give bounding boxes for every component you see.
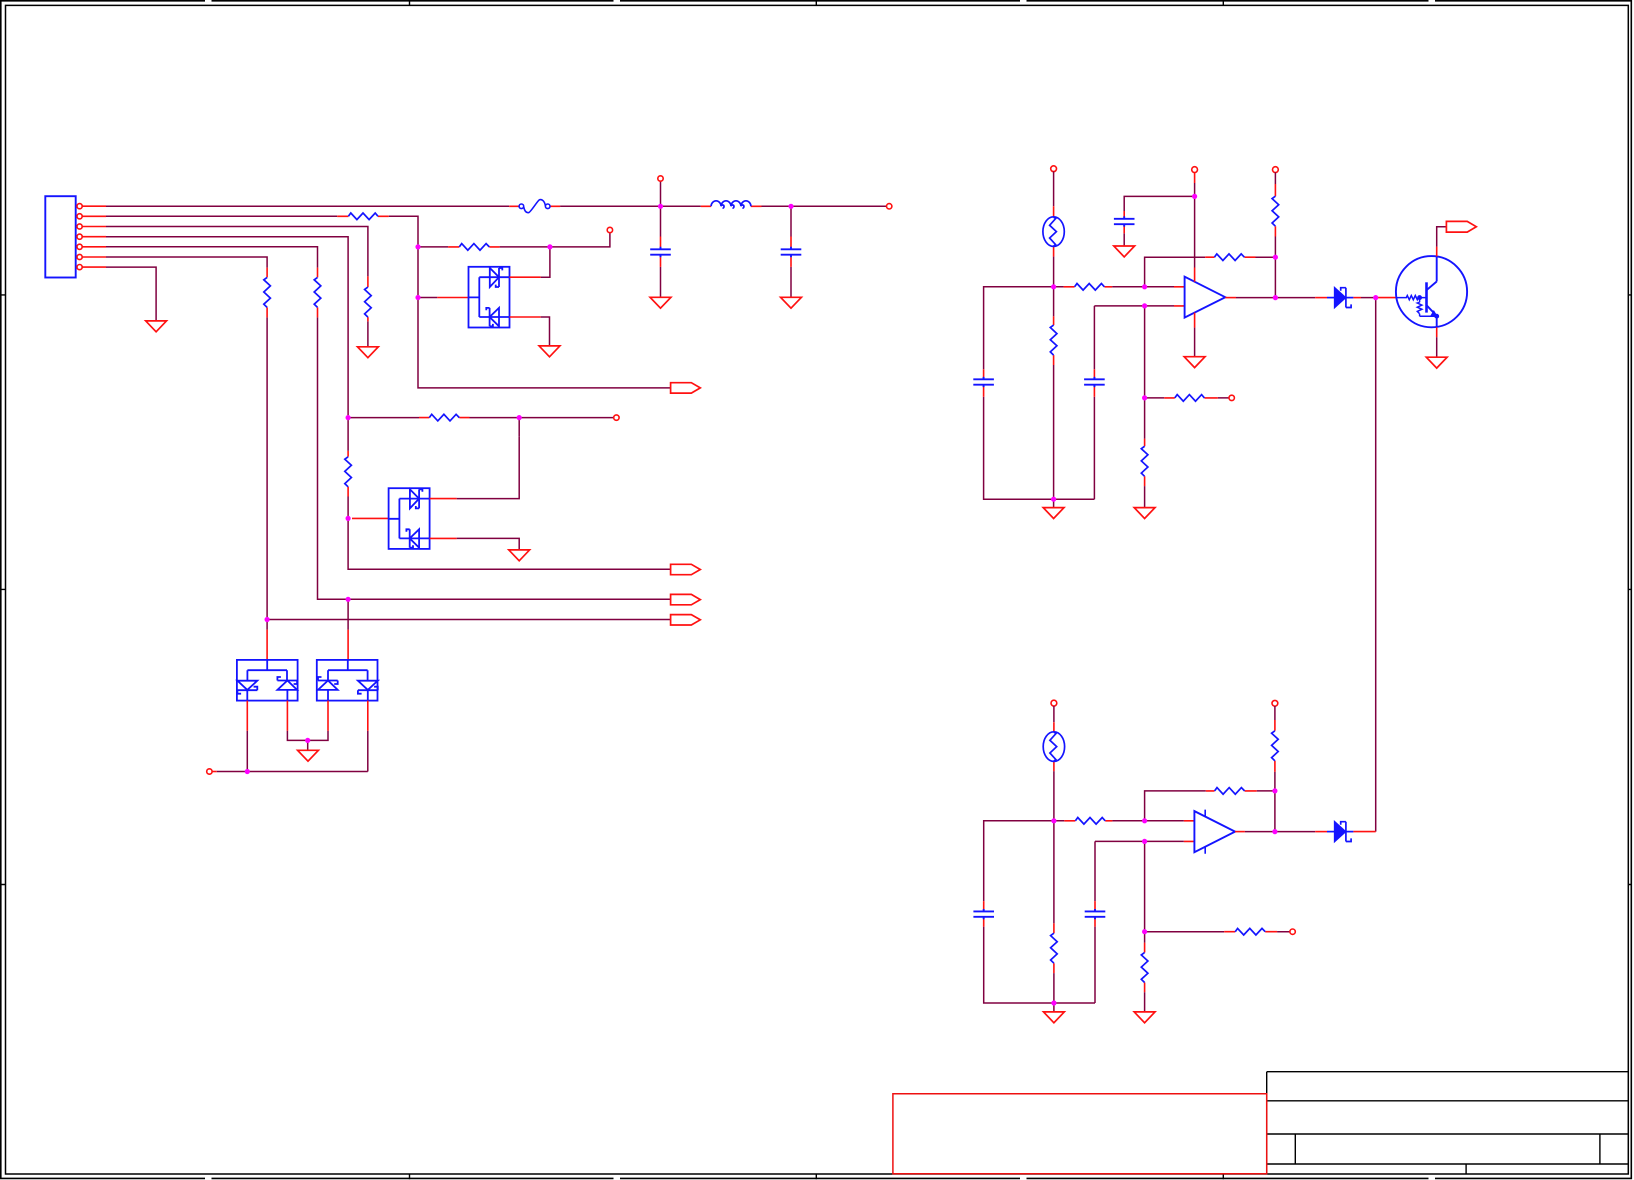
dual diode D1 left pin lead (437, 297, 468, 299)
thermistor RT1 leads (1053, 206, 1055, 256)
wire net pin5 drop to D4 (347, 599, 349, 629)
TVS D3 left diode wire to rail (246, 731, 248, 772)
resistor R14 leads (1144, 439, 1146, 487)
thermistor RT1 (1043, 217, 1064, 247)
diode D6 cathode lead (1353, 831, 1375, 833)
ground op-amp U1 (1184, 357, 1205, 368)
resistor R8 (264, 277, 271, 307)
dual diode D1 top pin wire (541, 247, 550, 277)
revision red box (893, 1094, 1267, 1174)
port arrow A4 (671, 615, 701, 625)
bypass cap wire (1124, 196, 1194, 246)
resistor R18 wires (1274, 706, 1276, 832)
feedback wire U1 (1145, 257, 1276, 287)
capacitor C5 bypass (1114, 216, 1135, 226)
resistor R7 leads (317, 268, 319, 318)
emitter wire (1436, 337, 1438, 357)
capacitor C5 bypass leads (1123, 211, 1125, 233)
TVS D4 right diode wire to rail (367, 731, 369, 772)
dual diode D1 package (469, 267, 510, 328)
thermistor RT2 (1043, 732, 1064, 762)
pin terminal circle R19 (1290, 929, 1295, 934)
fuse F1 leads (509, 205, 560, 207)
wire R9 to plus input (1054, 286, 1145, 288)
resistor R18 pullup leads (1274, 720, 1276, 772)
TVS D3 package (237, 660, 298, 701)
ground Q1 emitter (1426, 357, 1447, 368)
TVS D4 left diode wire to gnd node (308, 731, 328, 741)
dual diode D2 package (389, 488, 430, 549)
wire R20 (1144, 932, 1146, 1012)
ground TVS common (307, 740, 309, 750)
resistor R17 feedback leads (1206, 790, 1257, 792)
inductor L1 leads (701, 205, 762, 207)
resistor R15 input leads (1064, 820, 1112, 822)
op-amp U1 gnd wire (1194, 328, 1196, 357)
ground under R20 (1134, 1012, 1155, 1023)
inductor L1 (711, 201, 751, 208)
feedback wire U2 (1145, 791, 1275, 821)
resistor R6 vertical leads (347, 451, 349, 497)
supply terminal circle R18 (1272, 700, 1278, 706)
resistor R16 divider leads (1053, 923, 1055, 973)
diode D5 schottky (1327, 288, 1353, 308)
collector wire to port (1437, 227, 1447, 247)
TVS D4 package (317, 660, 378, 701)
resistor R10 divider (1050, 325, 1057, 355)
resistor R4 (365, 287, 372, 317)
TVS D4 bottom pin leads (328, 701, 368, 731)
connector J1 pin leads (82, 206, 106, 267)
port arrow A5 (1446, 221, 1476, 232)
resistor R2 series leads (337, 215, 389, 217)
capacitor C4 leads (1093, 369, 1095, 397)
port arrow A2 (671, 564, 701, 574)
ground under D2 (509, 550, 530, 561)
ground under R14 (1134, 508, 1155, 519)
resistor R15 input (1075, 818, 1105, 825)
ground pin7 (146, 321, 167, 332)
frame zone gap marks bottom (205, 1177, 1435, 1179)
resistor R5 leads (419, 417, 470, 419)
resistor R5 to terminal wire (348, 418, 613, 437)
dual diode D2 bottom pin wire (457, 538, 520, 550)
supply lead U1 (1194, 172, 1196, 183)
resistor R5 (429, 414, 459, 421)
resistor R13 leads (1164, 397, 1218, 399)
frame zone gap marks top (205, 0, 1435, 2)
wire R15 to plus input (1054, 820, 1145, 822)
wire RT1 bottom to node (1053, 257, 1055, 287)
resistor R18 pullup (1272, 731, 1279, 761)
pin terminal circle rail (207, 769, 212, 774)
ground bypass cap (1114, 246, 1135, 257)
op-amp U1 input wires (1145, 287, 1174, 398)
op-amp U1 output lead (1225, 297, 1236, 299)
ground under C2 (781, 297, 802, 308)
wire RT1 node down through R10 (1053, 287, 1055, 508)
supply terminal circle U1 (1192, 167, 1198, 173)
fuse F1 (519, 200, 550, 213)
op-amp U1 (1185, 277, 1226, 318)
transistor Q1 base lead (1376, 297, 1396, 299)
wire minus node to R19 row (1145, 931, 1290, 933)
resistor R9 input leads (1064, 286, 1113, 288)
op-amp U2 input leads (1184, 821, 1195, 842)
capacitor C2 wires (790, 206, 792, 297)
capacitor C2 (781, 247, 802, 257)
capacitor C4 (1084, 377, 1105, 387)
wire RT1 top (1053, 171, 1055, 206)
capacitor C4 branch wires (1094, 306, 1144, 499)
diode D6 schottky (1327, 822, 1353, 842)
frame zone ticks left (0, 295, 6, 885)
wire net pin6 (106, 257, 671, 630)
resistor R11 feedback (1214, 254, 1244, 261)
supply terminal circle R12 (1273, 167, 1279, 173)
capacitor C1 wires (660, 206, 662, 297)
wire node to left cap branch (984, 287, 1095, 499)
capacitor C1 (650, 247, 671, 257)
capacitor C6 leads (983, 901, 985, 927)
resistor R19 (1235, 928, 1265, 935)
wire RT2 top (1053, 706, 1055, 722)
resistor R7 (314, 277, 321, 307)
frame zone ticks right (1628, 295, 1631, 885)
dual diode D2 left pin lead (352, 517, 389, 519)
resistor R20 (1141, 953, 1148, 983)
pin terminal circle R13 (1229, 395, 1234, 400)
wire RT2 node down through R16 (1053, 821, 1055, 1012)
op-amp U2 output lead (1235, 831, 1245, 833)
capacitor C2 leads (790, 237, 792, 267)
transistor Q1 collector lead (1436, 247, 1438, 257)
dual diode D2 right pin leads (430, 499, 457, 539)
frame zone ticks top (410, 0, 1224, 5)
connector J1 pin circles (77, 204, 82, 270)
TVS D3 right diode wire to gnd node (287, 731, 307, 741)
bottom rail terminal lead (212, 771, 217, 773)
port arrow A3 (671, 594, 701, 604)
resistor R2 series (348, 213, 378, 220)
wire net pin1 to fuse and output (106, 181, 886, 206)
diode D5 cathode lead (1353, 297, 1361, 299)
resistor R9 input (1075, 284, 1105, 291)
bottom rail wire (217, 771, 368, 773)
capacitor C1 leads (660, 237, 662, 267)
dual diode D1 left pin wire (418, 297, 437, 299)
wire net pin7 (106, 267, 156, 321)
resistor R3 (459, 244, 489, 251)
op-amp U1 power wire (1194, 183, 1196, 268)
resistor R10 divider leads (1053, 316, 1055, 365)
resistor R11 feedback leads (1205, 256, 1255, 258)
thermistor RT2 leads (1053, 722, 1055, 771)
capacitor C7 branch wires (1095, 841, 1145, 1003)
resistor R12 pullup leads (1274, 184, 1276, 237)
wire RT2 bottom to node (1053, 771, 1055, 821)
resistor R8 leads (266, 268, 268, 318)
resistor R20 leads (1144, 943, 1146, 993)
op-amp U2 output wire (1245, 831, 1315, 833)
resistor R6 vertical (345, 457, 352, 487)
ground under C1 (650, 297, 671, 308)
dual diode D1 bottom pin wire (541, 317, 550, 346)
resistor R4 leads (367, 276, 369, 321)
pin terminal circle net VOUT right (887, 204, 892, 209)
op-amp U2 input wires (1145, 821, 1184, 932)
supply terminal circle RT1 (1051, 166, 1057, 172)
connector J1 (45, 196, 75, 277)
ground under D1 (539, 346, 560, 357)
ground under divider lower (1044, 1012, 1065, 1023)
wire net pin2 (106, 216, 671, 388)
diode D5 anode lead (1315, 297, 1327, 299)
diode D6 anode lead (1315, 831, 1327, 833)
resistor R3 leads (448, 246, 500, 248)
resistor R17 feedback (1215, 788, 1245, 795)
resistor R19 leads (1224, 931, 1277, 933)
wire node to left cap branch lower (984, 821, 1095, 1003)
wire R14 (1144, 398, 1146, 508)
port arrow A1 (671, 383, 701, 393)
capacitor C7 leads (1094, 901, 1096, 927)
resistor R14 (1141, 446, 1148, 476)
op-amp U1 power pin leads (1194, 268, 1196, 328)
junction dots left half (245, 204, 794, 774)
title block (1267, 1072, 1629, 1174)
capacitor C6 (973, 909, 994, 919)
op-amp U2 (1194, 810, 1235, 854)
ground under divider (1043, 508, 1064, 519)
resistor R12 wires (1274, 172, 1276, 297)
capacitor C7 (1085, 909, 1106, 919)
wire net pin3 (106, 227, 368, 347)
dual diode D1 right pin leads (510, 277, 541, 317)
transistor Q1 emitter lead (1436, 327, 1438, 337)
wire net pin5 (106, 247, 671, 600)
resistor R12 pullup (1272, 196, 1279, 226)
op-amp U1 output wire (1236, 297, 1315, 299)
frame zone ticks bottom (410, 1174, 1224, 1179)
wire net pin4 vertical (106, 237, 671, 570)
junction dots upper right (1051, 194, 1378, 502)
capacitor C3 leads (983, 369, 985, 397)
wire D5 to junction (1361, 297, 1376, 299)
transistor Q1 (1396, 256, 1467, 327)
wire net R3 row (418, 233, 610, 247)
capacitor C3 (973, 377, 994, 387)
TVS D3 bottom pin leads (247, 701, 287, 731)
ground under R4 (358, 347, 379, 358)
junction dots lower right (1051, 788, 1277, 1005)
dual diode D2 top pin wire (457, 436, 520, 498)
pin terminal circle above node (658, 176, 663, 181)
supply terminal circle RT2 (1051, 700, 1057, 706)
pin terminal circle net SENSE (614, 415, 619, 420)
wire minus node to R13 row (1145, 397, 1229, 399)
TVS D4 top pin lead (347, 630, 349, 660)
interconnect wire to lower stage (1375, 298, 1377, 832)
pin terminal circle node D+ (607, 227, 612, 232)
resistor R13 (1175, 395, 1205, 402)
resistor R16 divider (1051, 933, 1058, 963)
TVS D3 top pin lead (266, 630, 268, 660)
op-amp U1 input leads (1174, 287, 1185, 306)
